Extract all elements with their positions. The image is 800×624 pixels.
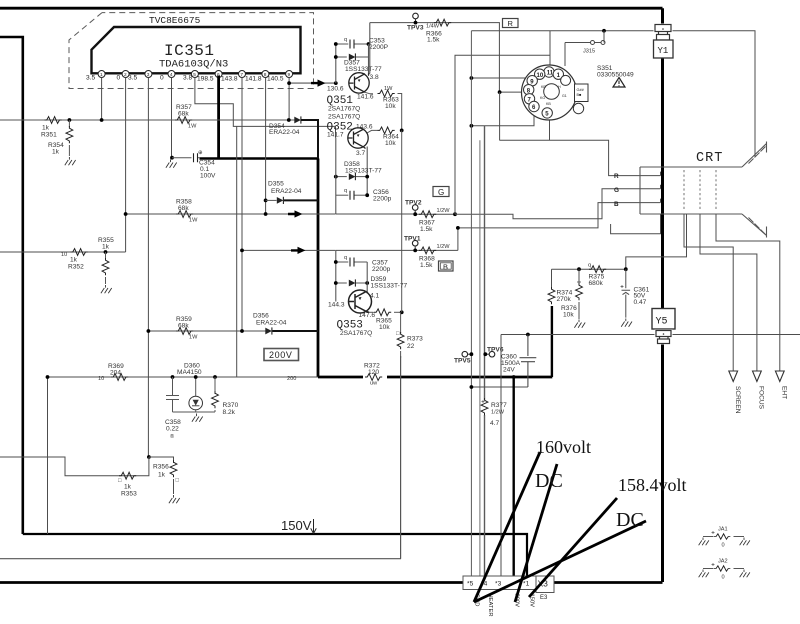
resistor R363 10k <box>378 90 395 97</box>
svg-text:1.5k: 1.5k <box>420 262 433 269</box>
pin 11 of socket <box>544 67 554 77</box>
wire B line y=250.4 from pin7 <box>242 249 336 251</box>
svg-text:TPV3: TPV3 <box>407 25 424 32</box>
node junction pin4 C354 <box>170 156 174 160</box>
svg-text:*1: *1 <box>523 581 530 588</box>
wire R-drive to Q351 base y=83 <box>289 82 336 84</box>
jumper JA2 <box>699 559 750 581</box>
svg-text:10: 10 <box>537 73 544 79</box>
node junction C361 top <box>624 267 628 271</box>
svg-text:R373: R373 <box>407 336 423 343</box>
wire gray bus y=334.5 <box>501 334 800 336</box>
node junction pin7 R359 <box>240 329 244 333</box>
svg-text:160volt: 160volt <box>536 437 591 457</box>
svg-text:1/2W: 1/2W <box>437 244 451 250</box>
svg-text:1SS133T-77: 1SS133T-77 <box>345 167 382 174</box>
svg-text:0330550049: 0330550049 <box>597 72 634 79</box>
svg-text:1W: 1W <box>384 86 393 92</box>
svg-text:270k: 270k <box>557 296 572 303</box>
svg-text:1: 1 <box>100 72 103 78</box>
wire bottom-left thick bus <box>0 581 463 584</box>
transistor Q351 2SA1767Q <box>349 73 370 93</box>
pin 9 of socket <box>527 76 537 86</box>
svg-text:TPV2: TPV2 <box>405 200 422 207</box>
pin 12 of socket <box>561 75 571 85</box>
svg-text:4: 4 <box>170 72 173 78</box>
wire C360 bottom to GND rail <box>471 386 528 388</box>
svg-text:10k: 10k <box>379 324 390 331</box>
ground D360 net <box>192 414 203 422</box>
svg-text:10k: 10k <box>385 140 396 147</box>
wire Q351 base rail <box>335 44 337 83</box>
node connector pin labels <box>467 581 530 588</box>
op-amp U1 IC351 body outline <box>92 27 301 73</box>
node junction TPV1 <box>413 249 417 253</box>
svg-text:1k: 1k <box>70 257 78 264</box>
node junction pin8 rail <box>498 90 502 94</box>
resistor R353 1k <box>119 472 136 479</box>
pin 7 of socket <box>524 94 534 104</box>
wire Q353 emitter to R365 <box>369 311 374 313</box>
wire socket pin8 west <box>500 91 523 93</box>
node junction D360 net left <box>171 375 175 379</box>
wire Q352 base rail <box>335 138 337 215</box>
svg-text:0.22: 0.22 <box>166 426 179 433</box>
wire D356 to thick rail <box>273 330 319 332</box>
wire G line west part <box>336 213 415 215</box>
wire R359 line y=331 <box>148 330 270 332</box>
svg-text:1.5k: 1.5k <box>427 37 440 44</box>
node B letter box <box>439 261 454 271</box>
diode D359 1SS133T-77 <box>336 282 347 284</box>
svg-text:10k: 10k <box>563 312 574 319</box>
CRT funnel top hatch <box>749 147 766 164</box>
svg-text:200V: 200V <box>269 350 292 360</box>
wire CRT focus drop <box>700 214 757 371</box>
wire G line y=214 from pin2 <box>126 213 336 215</box>
svg-text:68k: 68k <box>178 111 189 118</box>
wire R line TPV3 y=22.6 <box>370 23 500 93</box>
svg-text:2200p: 2200p <box>373 196 392 203</box>
wire pin1 drop <box>101 78 103 121</box>
svg-text:JA1: JA1 <box>718 527 728 533</box>
wire pin5 routing <box>195 78 336 138</box>
svg-text:Y1: Y1 <box>658 46 669 56</box>
ground R376 <box>574 320 585 328</box>
resistor R364 10k <box>378 127 395 134</box>
diode D360 circled zener <box>195 377 197 397</box>
svg-text:1W: 1W <box>189 218 198 224</box>
wire R369 line y=377 thin part <box>48 376 319 378</box>
svg-text:10: 10 <box>61 252 67 258</box>
resistor R375 680k <box>589 266 606 273</box>
svg-text:7: 7 <box>240 72 243 78</box>
node junction D358 right <box>365 175 369 179</box>
pin 4 of IC351 <box>168 71 175 79</box>
node junction D360 top <box>194 375 198 379</box>
svg-text:1k: 1k <box>52 149 60 156</box>
node socket tiny pin marks <box>540 85 567 106</box>
resistor R370 8.2k vertical <box>214 377 216 394</box>
wire R363 to feedback rail <box>398 94 402 131</box>
node SCREEN arrow <box>729 371 738 382</box>
wire pin7 drop to B line <box>241 78 243 332</box>
svg-text:R352: R352 <box>68 264 84 271</box>
node junction D357 left <box>334 55 338 59</box>
wire heater line y=559 <box>0 558 401 560</box>
ground R356 <box>169 495 180 503</box>
resistor R357 68k on R line <box>175 117 192 124</box>
svg-text:141.6: 141.6 <box>357 94 374 101</box>
node junction D355 left <box>264 199 268 203</box>
node junction TPV2 <box>413 212 417 216</box>
wire thick rail x=318 down <box>317 159 320 378</box>
CRT socket wires: pin9 to GND rail <box>471 77 527 79</box>
wire pin8 drop to D355 <box>265 78 267 215</box>
node arrow on B line <box>291 247 306 254</box>
svg-text:1/2W: 1/2W <box>491 410 505 416</box>
node junction B corner <box>456 226 460 230</box>
pin 6 of socket <box>529 101 539 111</box>
capacitor C360 1500A 24V <box>520 335 537 388</box>
svg-text:KG: KG <box>540 96 545 100</box>
wire TPV3 rail from Q351 emitter <box>369 23 371 74</box>
annotation line 160volt <box>474 452 540 602</box>
svg-text:E3: E3 <box>540 595 548 601</box>
svg-text:1k: 1k <box>102 244 110 251</box>
wire G route east with step <box>455 189 661 219</box>
svg-text:130.6: 130.6 <box>327 86 344 93</box>
pin 1 of socket <box>553 69 563 79</box>
resistor R366 1.5k <box>434 19 451 26</box>
connector Y5 plug <box>655 330 673 345</box>
svg-text:TPV5: TPV5 <box>454 358 471 365</box>
resistor R367 1.5k <box>419 211 436 218</box>
node arrow on R drive <box>311 80 326 87</box>
resistor R354 1k vertical <box>68 120 70 127</box>
resistor R351 1k <box>45 117 62 124</box>
annotation line DC2 <box>474 521 646 602</box>
wire pin6 thick drop <box>217 76 220 159</box>
svg-text:1/2W: 1/2W <box>437 208 451 214</box>
svg-text:R353: R353 <box>121 491 137 498</box>
svg-text:B: B <box>443 262 448 271</box>
svg-text:TVC8E6675: TVC8E6675 <box>149 15 201 26</box>
resistor R355 1k vertical <box>105 252 107 259</box>
resistor R368 1.5k <box>419 247 436 254</box>
svg-text:204: 204 <box>110 370 121 377</box>
diode D355 ERA22-04 <box>262 199 266 201</box>
svg-text:24V: 24V <box>503 367 515 374</box>
svg-text:D356: D356 <box>253 313 269 320</box>
capacitor C353 2200P <box>336 43 349 45</box>
svg-text:0: 0 <box>722 575 725 581</box>
transistor Q352 2SA1767Q <box>348 128 369 149</box>
capacitor C358 0.22 <box>166 377 179 412</box>
CRT funnel top flare <box>742 142 767 168</box>
svg-text:3: 3 <box>147 72 150 78</box>
node junction pin8 G <box>264 212 268 216</box>
wire pin3 to R353 corner <box>136 457 149 476</box>
svg-text:68k: 68k <box>178 323 189 330</box>
svg-text:FOCUS: FOCUS <box>758 386 765 410</box>
node junction C353 left <box>334 42 338 46</box>
svg-text:IC351: IC351 <box>164 42 215 60</box>
svg-text:1W: 1W <box>188 124 197 130</box>
svg-text:ERA22-04: ERA22-04 <box>269 129 300 136</box>
capacitor C357 2200p <box>336 261 349 263</box>
wire C361 feed <box>626 214 687 269</box>
node junction pin1 <box>100 118 104 122</box>
svg-text:141.8: 141.8 <box>245 76 262 83</box>
wire y=140.2 to CRT R pin <box>499 140 660 175</box>
svg-text:120: 120 <box>368 369 379 376</box>
svg-text:2SA1767Q: 2SA1767Q <box>328 106 360 113</box>
svg-text:1W: 1W <box>189 335 198 341</box>
annotation line DC1 <box>515 464 557 602</box>
wire pin3 drop to R359 and R356 <box>147 78 149 458</box>
test point TPV1 <box>412 240 418 246</box>
wire R-video line y=120 <box>0 119 295 121</box>
wire pin2 drop to G line and R352 wire <box>125 78 127 253</box>
svg-text:4.1: 4.1 <box>370 293 379 300</box>
svg-text:TPV6: TPV6 <box>487 347 504 354</box>
svg-text:KB: KB <box>546 102 551 106</box>
node junction TPV5 <box>470 352 474 356</box>
resistor R372 120 on bus <box>363 373 387 382</box>
svg-text:*3: *3 <box>495 581 502 588</box>
wire CRT pin stubs <box>660 172 662 203</box>
svg-text:q: q <box>344 255 347 261</box>
jumper J315 <box>565 42 604 44</box>
pin 6 of IC351 <box>215 71 222 79</box>
capacitor C356 2200P <box>336 194 349 196</box>
svg-text:1k: 1k <box>42 125 50 132</box>
node junction bus 200V drop <box>512 375 516 379</box>
svg-text:2SA1767Q: 2SA1767Q <box>340 330 372 337</box>
wire neck stub maze <box>611 214 661 234</box>
wire G line TPV2 to corner <box>415 213 453 215</box>
ground C361 <box>621 319 632 327</box>
svg-text:2SA1767Q: 2SA1767Q <box>328 114 360 121</box>
wire pin6 bus to x=318 <box>200 157 319 160</box>
jumper JA1 <box>699 527 750 549</box>
pin 9 of IC351 <box>286 71 293 79</box>
pin 3 of IC351 <box>145 71 152 79</box>
pin 10 of socket <box>535 69 545 79</box>
wire bottom-right thick bus <box>554 581 663 584</box>
svg-text:G##: G## <box>577 88 585 92</box>
node junction R route <box>602 29 606 33</box>
svg-text:1SS133T-77: 1SS133T-77 <box>345 66 382 73</box>
wire GND rail x=471.4 <box>470 31 472 576</box>
wire D355 left lead <box>266 199 277 201</box>
svg-text:uw: uw <box>370 381 378 387</box>
wire D355 to thick rail <box>284 199 318 201</box>
wire J315 left to socket pin1 <box>564 43 566 67</box>
svg-text:198.5: 198.5 <box>197 76 214 83</box>
wire rail x=499.6 down <box>499 92 501 140</box>
svg-text:100V: 100V <box>200 173 216 180</box>
node socket key circle <box>544 84 560 100</box>
node junction C357 left <box>334 260 338 264</box>
node junction Q351 base rail <box>334 81 338 85</box>
wire B route east <box>458 203 661 251</box>
node junction C360 gnd <box>470 385 474 389</box>
svg-text:1.5k: 1.5k <box>420 226 433 233</box>
thick 200V bus y=377 <box>318 376 552 379</box>
wire socket bottom gnd y=125.8 <box>471 110 534 126</box>
resistor R365 10k <box>374 309 391 316</box>
svg-text:R: R <box>508 19 514 28</box>
node junction R364 right <box>400 129 404 133</box>
wire heater rail x=484.5 with R377 <box>484 126 486 400</box>
ground pin4 <box>166 160 177 168</box>
CRT neck dashed grids <box>684 170 716 211</box>
wire R route y=30.8 <box>471 31 755 157</box>
svg-text:SCREEN: SCREEN <box>734 386 741 414</box>
node junction D360 net right <box>213 375 217 379</box>
svg-text:5: 5 <box>193 72 196 78</box>
resistor R359 68k <box>176 328 193 335</box>
svg-text:0: 0 <box>117 75 121 82</box>
wire G corner up to socket <box>455 55 550 214</box>
wire B line TPV1 <box>336 249 458 251</box>
svg-text:H: H <box>558 85 561 89</box>
svg-text:1k: 1k <box>124 484 132 491</box>
svg-text:JA2: JA2 <box>718 559 728 565</box>
wire R373 down to heater line <box>400 356 402 559</box>
IC351 dashed module boundary TVC8E6675 <box>69 13 314 89</box>
wire D354 to bus corner <box>301 120 318 159</box>
node junction pin3 R356 <box>147 455 151 459</box>
svg-text:680k: 680k <box>589 280 604 287</box>
pin 7 of IC351 <box>239 71 246 79</box>
svg-text:R351: R351 <box>41 132 57 139</box>
resistor R376 10k vertical <box>578 269 580 284</box>
svg-text:R377: R377 <box>491 402 507 409</box>
svg-text:147.6: 147.6 <box>359 312 376 319</box>
wire R364 to Q352 <box>367 130 378 133</box>
svg-text:0: 0 <box>722 543 725 549</box>
diode D357 1SS133T-77 <box>336 56 347 58</box>
diode D358 1SS133T-77 <box>336 176 347 178</box>
svg-text:Y5: Y5 <box>656 317 668 328</box>
svg-text:22: 22 <box>407 343 415 350</box>
wire R352 line y=252 <box>0 251 126 253</box>
pin 8 of socket <box>524 85 534 95</box>
wire pin9 drop <box>288 78 290 121</box>
wire Q351 collector to R363 <box>365 92 373 94</box>
node R letter box <box>503 19 519 28</box>
resistor R377 4.7 1/2W <box>482 400 485 403</box>
svg-text:q: q <box>344 188 347 194</box>
connector Y1 box <box>654 40 674 58</box>
svg-text:3.5: 3.5 <box>86 75 95 82</box>
svg-text:ERA22-04: ERA22-04 <box>256 320 287 327</box>
wire feedback rail x=401.7 <box>401 130 403 312</box>
pin 1 of IC351 <box>98 71 105 79</box>
connector Y5 box <box>652 309 675 330</box>
svg-text:10: 10 <box>98 376 104 382</box>
node junction pin7 B <box>240 249 244 253</box>
svg-text:CRT: CRT <box>696 151 723 166</box>
svg-text:143.8: 143.8 <box>221 76 238 83</box>
node junction C356 right <box>365 193 369 197</box>
svg-text:B: B <box>614 201 619 208</box>
wire CRT EHT drop <box>716 214 780 371</box>
svg-text:⊕: ⊕ <box>198 150 203 156</box>
svg-text:DC: DC <box>535 470 563 492</box>
svg-text:*5: *5 <box>467 581 474 588</box>
wire R374 thick down to bus <box>551 306 553 377</box>
node junction gnd y125.8 <box>470 124 474 128</box>
svg-text:8.2k: 8.2k <box>223 409 236 416</box>
wire 150V horizontal bus <box>23 534 527 576</box>
node junction R375 left <box>577 267 581 271</box>
node junction D359 right <box>365 281 369 285</box>
test point TPV5 <box>462 351 468 357</box>
svg-text:q: q <box>588 263 591 269</box>
svg-text:G: G <box>438 188 444 197</box>
svg-text:3.8: 3.8 <box>183 75 192 82</box>
node junction R351/R354 <box>68 118 72 122</box>
node G letter box <box>433 187 449 197</box>
node junction pin9/R357 <box>287 118 291 122</box>
svg-text:D355: D355 <box>268 181 284 188</box>
ground R355 <box>101 285 112 293</box>
wire 150V pointer arrow <box>311 519 317 534</box>
test point TPV3 <box>413 13 419 19</box>
svg-text:G: G <box>614 187 619 194</box>
wire socket pin11 up to R route <box>549 31 551 65</box>
wire aux vertical x=236.7 <box>236 126 238 377</box>
node junction bus corner <box>46 375 50 379</box>
connector Y1 plug <box>654 24 673 41</box>
svg-text:150V: 150V <box>281 518 312 533</box>
CRT neck outline <box>640 167 742 214</box>
svg-text:144.3: 144.3 <box>328 302 345 309</box>
svg-text:200: 200 <box>287 376 296 382</box>
svg-text:DC: DC <box>616 509 644 531</box>
node junction D358 left <box>334 175 338 179</box>
wire drop x=501 to connector pin3 <box>500 335 502 577</box>
wire rail x=479.9 <box>479 140 481 576</box>
resistor R352 1k <box>71 249 88 256</box>
wire right vertical thick bus <box>661 8 664 582</box>
svg-text:J315: J315 <box>583 49 595 55</box>
wire R365 to rail <box>394 311 402 313</box>
svg-text:141.7: 141.7 <box>327 132 344 139</box>
connector X3 end box <box>536 576 554 593</box>
svg-text:R356: R356 <box>153 464 169 471</box>
node junction TPV6 <box>483 352 487 356</box>
wire R374 top line y=269.2 <box>552 268 626 270</box>
wire drop x=47.5 to 150V bus <box>47 377 49 534</box>
svg-text:G1: G1 <box>562 94 567 98</box>
wire socket pin5 drop <box>549 116 551 140</box>
wire Q351 emitter rail to TPV3 <box>368 44 370 76</box>
svg-text:TPV1: TPV1 <box>404 236 421 243</box>
node junction pin3 R359 <box>147 329 151 333</box>
node junction R365/R373 <box>400 310 404 314</box>
svg-text:B■: B■ <box>577 93 583 97</box>
svg-text:4.7: 4.7 <box>490 420 499 427</box>
CRT funnel bottom hatch <box>749 218 766 235</box>
svg-text:158.4volt: 158.4volt <box>618 475 687 495</box>
svg-text:1/4W: 1/4W <box>426 24 440 30</box>
capacitor C354 0.1 100V <box>172 157 192 159</box>
